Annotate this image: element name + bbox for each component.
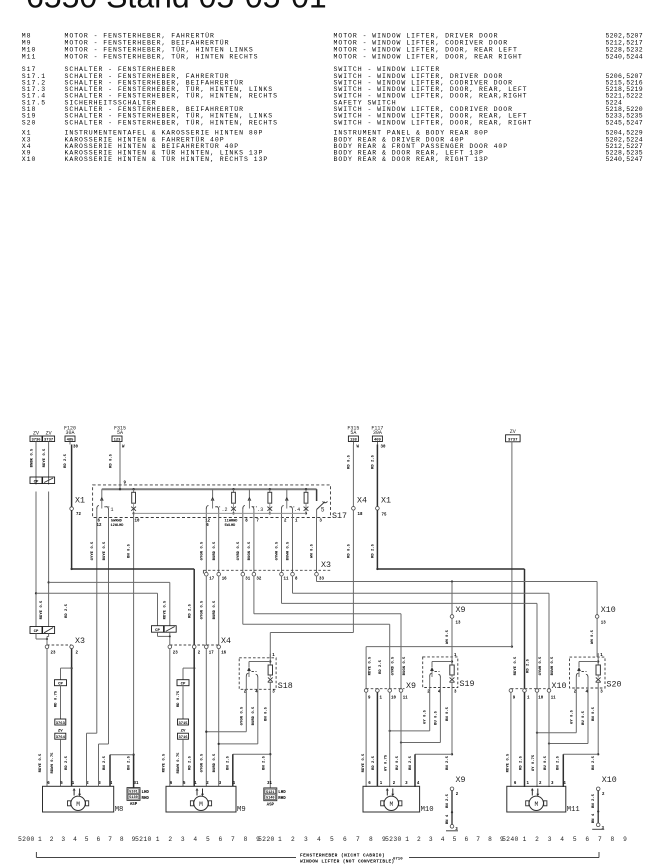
pin jogs M8 (87, 732, 97, 734)
svg-text:GYRD 0.5: GYRD 0.5 (237, 541, 241, 560)
switch S17.1 (97, 489, 114, 517)
motor M10 (363, 782, 434, 814)
svg-text:6550 Stand 05-05-01: 6550 Stand 05-05-01 (26, 0, 327, 15)
svg-text:5200: 5200 (18, 836, 35, 843)
svg-text:RDYE 0.5: RDYE 0.5 (163, 753, 167, 772)
svg-text:MOTOR - FENSTERHEBER, TÜR, HIN: MOTOR - FENSTERHEBER, TÜR, HINTEN RECHTS (65, 53, 259, 61)
svg-text:LHD: LHD (142, 791, 150, 795)
switch S17.4 (282, 489, 301, 517)
svg-text:5245,5247: 5245,5247 (606, 119, 643, 126)
switch S19 dashed box (423, 657, 458, 688)
svg-text:3763: 3763 (56, 722, 66, 726)
connector X10 pin 13 (591, 606, 616, 657)
svg-text:GYGN 0.5: GYGN 0.5 (240, 706, 244, 725)
svg-text:11: 11 (284, 578, 289, 582)
svg-text:M8: M8 (22, 33, 32, 40)
svg-text:5220: 5220 (258, 836, 275, 843)
svg-text:BN 4: BN 4 (446, 814, 450, 824)
wire BUGN routing (253, 576, 255, 614)
svg-text:5228,5232: 5228,5232 (606, 47, 643, 54)
svg-text:RD 2.5: RD 2.5 (64, 453, 68, 468)
svg-text:X10: X10 (601, 606, 616, 615)
illumination lamp E4 (304, 488, 309, 514)
svg-text:8: 8 (369, 836, 373, 843)
wire GYRD 0.5 from S17 (242, 518, 244, 573)
power feed ZV 3736 (30, 431, 42, 627)
svg-text:CP: CP (34, 480, 39, 484)
svg-text:BU 0.5: BU 0.5 (544, 755, 548, 770)
svg-text:32: 32 (256, 578, 261, 582)
connector X9 pin 13 (446, 606, 465, 657)
S17 illumination bus (134, 512, 306, 514)
svg-text:S20: S20 (607, 681, 622, 690)
svg-text:X4: X4 (221, 637, 231, 646)
svg-text:10: 10 (538, 696, 543, 700)
svg-text:4: 4 (560, 836, 564, 843)
svg-text:GY 0.75: GY 0.75 (532, 754, 536, 771)
wire RD 0.5 X4-18 to S18 (270, 632, 353, 634)
svg-text:MOTOR - FENSTERHEBER, BEIFAHRE: MOTOR - FENSTERHEBER, BEIFAHRERTÜR (65, 39, 230, 47)
svg-text:6: 6 (97, 836, 101, 843)
svg-text:RD 2.5: RD 2.5 (65, 755, 69, 770)
svg-text:1: 1 (111, 507, 114, 513)
legend table (22, 32, 643, 164)
svg-text:72: 72 (76, 513, 81, 517)
svg-text:RD 2.5: RD 2.5 (371, 454, 375, 469)
svg-text:4: 4 (193, 836, 197, 843)
RDWH 0.75 stub M9 with CP and ZV codes (177, 667, 195, 786)
svg-text:5: 5 (85, 836, 89, 843)
svg-text:6: 6 (343, 836, 347, 843)
svg-text:X9: X9 (456, 606, 466, 615)
power feed ZV 3737 right (506, 429, 520, 647)
svg-text:17: 17 (209, 652, 214, 656)
motor M9 (166, 782, 246, 814)
svg-text:BU 0.5: BU 0.5 (582, 710, 586, 725)
svg-text:3715: 3715 (178, 722, 188, 726)
connector CP pair top-left (30, 477, 55, 484)
svg-text:M11: M11 (567, 806, 580, 814)
svg-text:BN 2.5: BN 2.5 (409, 755, 413, 770)
svg-text:BN 0.5: BN 0.5 (264, 706, 268, 721)
svg-text:RDYE 0.5: RDYE 0.5 (362, 753, 366, 772)
svg-text:X9: X9 (456, 776, 466, 785)
svg-text:18: 18 (358, 513, 363, 517)
svg-text:GY 0.5: GY 0.5 (570, 709, 574, 724)
wire GYYE 0.5 (96, 518, 98, 734)
svg-text:S20: S20 (22, 119, 37, 126)
svg-text:BN 0.5: BN 0.5 (592, 706, 596, 721)
svg-text:ASP: ASP (267, 803, 275, 807)
svg-text:RD 2.5: RD 2.5 (379, 659, 383, 674)
svg-text:RD 2.5: RD 2.5 (372, 755, 376, 770)
wire GYGN to M9 (205, 649, 207, 787)
wire BN 0.5 S20 (597, 689, 599, 754)
svg-text:M9: M9 (22, 40, 32, 47)
svg-text:RDYE 0.5: RDYE 0.5 (368, 656, 372, 675)
bottom function bracket (36, 852, 599, 865)
svg-text:23: 23 (173, 652, 178, 656)
svg-text:5240: 5240 (502, 836, 519, 843)
svg-text:BN 2.5: BN 2.5 (263, 755, 267, 770)
svg-text:5: 5 (453, 836, 457, 843)
svg-text:BN 2.5: BN 2.5 (557, 755, 561, 770)
svg-text:3: 3 (181, 836, 185, 843)
svg-text:GYGN 0.5: GYGN 0.5 (200, 541, 204, 560)
svg-text:BN 4: BN 4 (592, 813, 596, 823)
wires into M10 (365, 692, 367, 787)
svg-text:X10: X10 (22, 156, 37, 163)
illumination lamp E3 (267, 488, 272, 514)
S19 internals (427, 653, 457, 694)
wire BUYE 0.5 (108, 518, 110, 745)
wire WH 0.5 to X9/X10 (316, 576, 318, 582)
switch S17.3 (243, 489, 263, 517)
svg-text:8: 8 (488, 836, 492, 843)
wire BN 0.5 S19 (451, 689, 453, 755)
svg-text:8: 8 (120, 836, 124, 843)
svg-text:6710: 6710 (393, 858, 403, 862)
svg-text:RDYE 0.5: RDYE 0.5 (507, 753, 511, 772)
wire BURD 0.5 from S17 (218, 518, 220, 573)
switch S20 dashed box (570, 657, 606, 688)
svg-text:4: 4 (73, 836, 77, 843)
wire BUWH 0.5 from S17 (292, 518, 294, 573)
svg-text:13: 13 (601, 622, 606, 626)
svg-text:BN 2.5: BN 2.5 (103, 755, 107, 770)
wire GY 0.5 S19 (429, 689, 431, 731)
X9 ground pins 2,3 (446, 776, 465, 832)
svg-text:BUWH 0.5: BUWH 0.5 (551, 656, 555, 675)
S20 internals (574, 653, 603, 694)
svg-text:RDWH 0.75: RDWH 0.75 (51, 752, 55, 774)
svg-text:S18: S18 (278, 682, 293, 691)
power feed ZV 3737 left (43, 431, 55, 627)
wire RDYE 0.5 to M10 (511, 645, 513, 647)
svg-text:M: M (389, 801, 393, 808)
svg-text:31: 31 (267, 782, 272, 786)
connector X4 pins 23 2 17 16 (168, 637, 231, 656)
svg-text:13: 13 (456, 622, 461, 626)
svg-text:RDYE 0.5: RDYE 0.5 (39, 753, 43, 772)
svg-text:4: 4 (441, 836, 445, 843)
svg-text:10: 10 (135, 520, 140, 524)
svg-text:5121: 5121 (266, 791, 274, 795)
switch S17.2 (206, 489, 227, 517)
svg-text:X4: X4 (357, 497, 367, 506)
wire GY 0.5 S18 (245, 690, 247, 731)
svg-text:GYYE 0.5: GYYE 0.5 (91, 541, 95, 560)
svg-text:5101: 5101 (129, 791, 137, 795)
wire BU 0.5 S19 (439, 689, 441, 743)
svg-text:3: 3 (61, 836, 65, 843)
svg-text:30: 30 (73, 446, 78, 450)
svg-text:5WLHD: 5WLHD (225, 524, 237, 528)
svg-text:RD 2.5: RD 2.5 (371, 543, 375, 558)
svg-text:17: 17 (209, 578, 214, 582)
svg-text:RD 2.5: RD 2.5 (526, 658, 530, 673)
connector X3 pins 23 2 (45, 637, 85, 656)
wire GYWH routing (281, 576, 283, 604)
svg-text:BUGN 0.5: BUGN 0.5 (248, 541, 252, 560)
svg-text:X10: X10 (552, 682, 567, 691)
svg-text:M8: M8 (115, 806, 124, 814)
svg-text:SWITCH - WINDOW LIFTER, DOOR,: SWITCH - WINDOW LIFTER, DOOR, REAR, RIGH… (334, 119, 533, 126)
svg-text:RDYE 0.5: RDYE 0.5 (164, 600, 168, 619)
svg-text:BURD 0.5: BURD 0.5 (252, 706, 256, 725)
svg-text:GYGN 0.5: GYGN 0.5 (200, 600, 204, 619)
fuse F120 30A (64, 426, 78, 509)
svg-text:2: 2 (417, 836, 421, 843)
svg-text:RD 2.5: RD 2.5 (519, 755, 523, 770)
svg-text:BN 2.5: BN 2.5 (446, 793, 450, 808)
wire GYRD routing (242, 576, 244, 624)
svg-text:WH 0.5: WH 0.5 (311, 543, 315, 558)
svg-text:BUWH 0.5: BUWH 0.5 (287, 541, 291, 560)
coordinate scale row (18, 836, 627, 843)
svg-text:2: 2 (50, 836, 54, 843)
svg-text:1: 1 (278, 836, 282, 843)
svg-text:MOTOR - FENSTERHEBER, FAHRERTÜ: MOTOR - FENSTERHEBER, FAHRERTÜR (65, 32, 215, 40)
svg-text:5210: 5210 (135, 836, 152, 843)
connector X3 row pins 17 16 31 32 11 8 33 (203, 561, 332, 582)
wire BNBK 0.5 branch to M9 (35, 592, 37, 594)
svg-text:2: 2 (535, 836, 539, 843)
svg-text:5A: 5A (350, 430, 356, 436)
wire BUWH routing to X10 (292, 576, 294, 593)
svg-text:6: 6 (585, 836, 589, 843)
svg-text:2: 2 (168, 836, 172, 843)
svg-text:BURD 0.5: BURD 0.5 (213, 541, 217, 560)
svg-text:30A: 30A (373, 430, 382, 436)
svg-text:RD 0.5: RD 0.5 (348, 454, 352, 469)
svg-text:5212,5217: 5212,5217 (606, 40, 643, 47)
RDWH 0.75 stub M8 with CP and ZV codes (55, 667, 73, 786)
svg-text:16: 16 (222, 578, 227, 582)
wires X3 17/16 down to X4 (205, 576, 207, 645)
svg-text:33: 33 (319, 578, 324, 582)
svg-text:75: 75 (382, 514, 387, 518)
svg-text:BN 2.5: BN 2.5 (592, 755, 596, 770)
svg-text:.2: .2 (222, 507, 228, 513)
svg-text:M: M (534, 801, 538, 808)
connector CP pair codriver (152, 626, 177, 645)
ground reference box M9 (5121/5140) (264, 782, 286, 808)
illumination lamp E2 (231, 488, 236, 514)
svg-text:8: 8 (611, 836, 615, 843)
svg-text:MOTOR - WINDOW LIFTER, DOOR, R: MOTOR - WINDOW LIFTER, DOOR, REAR LEFT (334, 47, 518, 54)
svg-text:WINDOW LIFTER (NOT CONVERTIBLE: WINDOW LIFTER (NOT CONVERTIBLE) (300, 859, 395, 865)
svg-text:3: 3 (304, 836, 308, 843)
svg-text:5: 5 (321, 507, 325, 514)
svg-text:S17: S17 (332, 512, 347, 521)
svg-text:RD 2.5: RD 2.5 (189, 603, 193, 618)
wire GYGN 0.5 from S17 (205, 518, 207, 573)
svg-text:M9: M9 (237, 806, 246, 814)
svg-text:11: 11 (403, 696, 408, 700)
svg-text:KAROSSERIE HINTEN & TÜR HINTEN: KAROSSERIE HINTEN & TÜR HINTEN, RECHTS 1… (65, 155, 269, 163)
svg-text:RHD: RHD (278, 797, 286, 801)
svg-text:2: 2 (291, 836, 295, 843)
svg-text:3: 3 (548, 836, 552, 843)
svg-text:12: 12 (97, 524, 102, 528)
switch assembly S17 dashed box (93, 485, 331, 518)
svg-text:16: 16 (221, 652, 226, 656)
svg-text:BN 2.5: BN 2.5 (227, 755, 231, 770)
svg-text:GY 0.5: GY 0.5 (424, 709, 428, 724)
ground reference box M8 (5101/5130) (127, 782, 149, 807)
svg-text:5: 5 (206, 836, 210, 843)
svg-text:GY 0.75: GY 0.75 (385, 754, 389, 771)
wires into M11 (510, 692, 512, 787)
svg-text:31: 31 (134, 782, 139, 786)
wire RDYE to M8 (46, 649, 48, 787)
svg-text:WH 0.5: WH 0.5 (591, 629, 595, 644)
svg-text:11WRHD: 11WRHD (225, 520, 239, 524)
svg-text:BN 0.5: BN 0.5 (128, 543, 132, 558)
svg-text:.4: .4 (294, 507, 300, 513)
svg-text:7: 7 (231, 836, 235, 843)
svg-text:1: 1 (405, 836, 409, 843)
svg-text:FENSTERHEBER (NICHT CABRIO): FENSTERHEBER (NICHT CABRIO) (300, 853, 385, 859)
svg-text:RDYE 0.5: RDYE 0.5 (514, 656, 518, 675)
svg-text:BURD 0.5: BURD 0.5 (213, 600, 217, 619)
svg-text:RD 2.5: RD 2.5 (65, 603, 69, 618)
connector X10 pins 9 1 10 11 (509, 682, 566, 700)
svg-text:M10: M10 (421, 806, 434, 814)
S18 internals (244, 654, 275, 695)
svg-text:30: 30 (381, 446, 386, 450)
svg-text:6: 6 (219, 836, 223, 843)
svg-text:X3: X3 (321, 561, 331, 570)
svg-text:6: 6 (464, 836, 468, 843)
svg-text:1: 1 (156, 836, 160, 843)
svg-text:5140: 5140 (266, 797, 274, 801)
svg-text:11: 11 (551, 696, 556, 700)
RD2.5 branch F117 to M11 (376, 568, 378, 570)
svg-text:M11: M11 (22, 54, 37, 61)
wire RD2.5 to M9 (193, 649, 195, 787)
svg-text:BUYE 0.5: BUYE 0.5 (103, 541, 107, 560)
svg-text:X3: X3 (75, 637, 85, 646)
S17 pin labels (97, 520, 323, 528)
svg-text:5: 5 (330, 836, 334, 843)
connector X1 pin 72 inline (70, 497, 85, 570)
svg-text:BN 2.5: BN 2.5 (592, 793, 596, 808)
fuse F315 5A left (112, 426, 126, 490)
svg-text:31: 31 (245, 578, 250, 582)
wire GY 0.5 S20 (575, 689, 577, 733)
wire BUGN 0.5 from S17 (253, 518, 255, 573)
svg-text:7: 7 (476, 836, 480, 843)
wire BU 0.5 S18 (257, 690, 259, 744)
svg-text:RDYE 0.5: RDYE 0.5 (40, 600, 44, 619)
svg-text:MOTOR - WINDOW LIFTER, CODRIVE: MOTOR - WINDOW LIFTER, CODRIVER DOOR (334, 40, 509, 47)
svg-text:1: 1 (523, 836, 527, 843)
svg-text:MOTOR - FENSTERHEBER, TÜR, HIN: MOTOR - FENSTERHEBER, TÜR, HINTEN LINKS (65, 46, 254, 54)
svg-text:5A: 5A (117, 430, 123, 436)
svg-text:X10: X10 (602, 776, 617, 785)
svg-text:M10: M10 (22, 47, 37, 54)
svg-text:BU 0.5: BU 0.5 (434, 710, 438, 725)
motor M11 (507, 782, 580, 814)
svg-text:ASP: ASP (130, 803, 138, 807)
svg-text:RD 0.75: RD 0.75 (55, 690, 59, 707)
svg-text:LHD: LHD (278, 791, 286, 795)
switch S18 dashed box (239, 658, 276, 690)
connector X9 pins 9 1 10 11 (364, 682, 416, 700)
svg-text:GYWH 0.5: GYWH 0.5 (276, 541, 280, 560)
connector CP pair mid-left (30, 627, 55, 646)
S17 supply bus (102, 488, 317, 490)
svg-text:BUGN 0.5: BUGN 0.5 (403, 656, 407, 675)
svg-text:RD 0.5: RD 0.5 (110, 453, 114, 468)
svg-text:S19: S19 (460, 680, 475, 689)
svg-text:1: 1 (38, 836, 42, 843)
svg-text:SCHALTER - FENSTERHEBER, TÜR,: SCHALTER - FENSTERHEBER, TÜR, HINTEN, RE… (65, 118, 278, 126)
svg-text:5202,5207: 5202,5207 (606, 33, 643, 40)
svg-text:5: 5 (573, 836, 577, 843)
svg-text:WH 0.5: WH 0.5 (446, 629, 450, 644)
wire WH 0.5 from S17 (316, 518, 318, 573)
wire BU 0.5 S20 (587, 689, 589, 744)
svg-text:3: 3 (429, 836, 433, 843)
wire RD2.5 to M8 (71, 649, 73, 669)
svg-text:M: M (76, 801, 80, 808)
svg-text:X1: X1 (75, 497, 85, 506)
svg-text:5240,5244: 5240,5244 (606, 54, 643, 61)
svg-text:5230: 5230 (385, 836, 402, 843)
wire RDYE 0.5 branch to M9 (47, 581, 49, 583)
svg-text:7: 7 (108, 836, 112, 843)
svg-text:BU 0.5: BU 0.5 (396, 755, 400, 770)
svg-text:ZV: ZV (510, 429, 516, 435)
RD2.5 branch F120 to M9 (70, 568, 72, 570)
svg-text:RDWH 0.75: RDWH 0.75 (177, 752, 181, 774)
svg-text:X9: X9 (406, 682, 416, 691)
svg-text:X1: X1 (381, 497, 391, 506)
svg-text:BURD 0.5: BURD 0.5 (213, 753, 217, 772)
wire RDYE to M9 (169, 649, 171, 787)
svg-text:12WLHD: 12WLHD (111, 524, 125, 528)
X10 ground pins 2,3 (592, 776, 617, 831)
svg-text:M: M (199, 801, 203, 808)
svg-text:BN 2.5: BN 2.5 (446, 755, 450, 770)
svg-text:GYWH 0.5: GYWH 0.5 (539, 656, 543, 675)
svg-text:5WRHD: 5WRHD (111, 520, 123, 524)
fuse F315 5A right (347, 426, 359, 507)
svg-text:10: 10 (391, 696, 396, 700)
illumination lamp E1 (131, 488, 136, 514)
connector X4 pin 18 inline (348, 497, 367, 633)
svg-text:RHD: RHD (142, 797, 150, 801)
svg-text:7: 7 (356, 836, 360, 843)
svg-text:30A: 30A (65, 430, 74, 436)
fuse F117 30A (371, 426, 386, 507)
svg-text:BNBK 0.5: BNBK 0.5 (30, 448, 34, 467)
wire BN 0.5 S18 (269, 690, 271, 788)
svg-text:8: 8 (244, 836, 248, 843)
svg-text:MOTOR - WINDOW LIFTER, DRIVER: MOTOR - WINDOW LIFTER, DRIVER DOOR (334, 33, 499, 40)
svg-text:23: 23 (51, 652, 56, 656)
svg-text:MOTOR - WINDOW LIFTER, DOOR, R: MOTOR - WINDOW LIFTER, DOOR, REAR RIGHT (334, 54, 523, 61)
wire BN 0.5 lamp ground (133, 513, 135, 754)
svg-text:RDYE 0.5: RDYE 0.5 (43, 448, 47, 467)
svg-text:GYGN 0.5: GYGN 0.5 (200, 753, 204, 772)
connector X1 pin 75 inline (371, 497, 391, 570)
svg-text:4: 4 (317, 836, 321, 843)
svg-text:BODY REAR & DOOR REAR, RIGHT 1: BODY REAR & DOOR REAR, RIGHT 13P (334, 156, 489, 163)
